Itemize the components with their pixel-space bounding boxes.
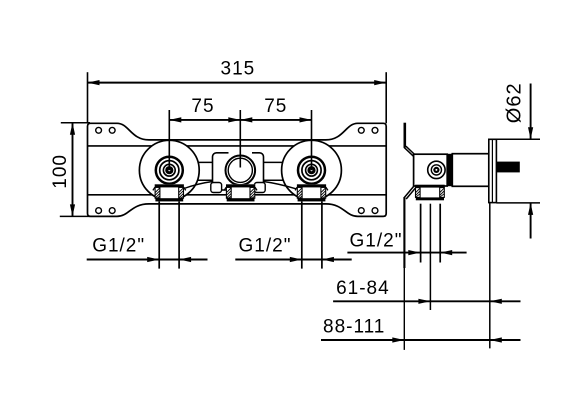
wall bottom diagonal [404,185,415,198]
side nut stubs [420,204,422,263]
svg-text:75: 75 [191,96,214,117]
side nut [415,185,445,201]
screw hole top-right 2 [372,127,378,133]
band top line [88,145,387,147]
svg-text:100: 100 [50,154,71,189]
screw hole top-right 1 [358,127,364,133]
screw hole bottom-left 1 [96,208,102,214]
svg-text:G1/2": G1/2" [350,230,403,251]
svg-text:Ø62: Ø62 [504,82,526,123]
dim 61-84 line [333,300,520,302]
left lug [211,183,222,193]
right valve rings [298,157,325,184]
screw hole bottom-left 2 [109,208,115,214]
right arm curve [264,182,297,189]
wall top segment [403,123,406,148]
right nut [295,184,328,201]
left arm curve [184,182,213,189]
side centerline [429,204,431,310]
housing top edge gap [229,151,253,156]
dim 315 extension lines [87,72,89,123]
dim 100 line [72,123,74,217]
side bracket box [414,154,448,186]
band bottom line [88,194,387,196]
right valve body circle [282,140,342,200]
screw hole bottom-right 1 [358,208,364,214]
right lug [254,183,265,193]
screw hole bottom-right 2 [372,208,378,214]
svg-text:75: 75 [264,96,287,117]
dim 75 extension lines [168,110,170,170]
spindle stem [496,162,519,173]
left valve body circle [139,140,199,200]
screw hole top-left 2 [109,127,115,133]
right pipe stubs [301,202,303,269]
dim 315 line [88,82,387,84]
side screw rings [428,161,445,178]
svg-text:G1/2": G1/2" [92,235,145,256]
dim d62 line [530,84,532,140]
bracket outline front view [88,123,387,216]
tube bottom line [190,179,292,181]
G1/2 dim line left pair [87,259,208,261]
dim d62 extension lines [496,138,540,140]
tube top line [190,161,292,163]
escutcheon flange [489,139,497,202]
center nut [224,184,257,201]
wall top diagonal [404,147,414,156]
joint bar [447,154,453,186]
dim 75 line [169,119,311,121]
cartridge cylinder [452,154,489,187]
center housing [213,153,264,190]
screw hole top-left 1 [96,127,102,133]
dim 88-111 line [321,339,521,341]
flange extension line [489,203,491,349]
G1/2 dim line right pair [235,259,351,261]
left valve rings [156,157,183,184]
wall bottom vertical [403,197,405,268]
svg-text:61-84: 61-84 [336,278,390,299]
dim 100 extension lines [61,122,90,124]
center valve circle [226,156,256,186]
svg-text:G1/2": G1/2" [239,235,292,256]
left pipe stubs [158,202,160,269]
left nut [153,184,186,201]
svg-text:315: 315 [221,59,256,80]
svg-text:88-111: 88-111 [323,316,385,337]
G1/2 dim line side [347,252,466,254]
